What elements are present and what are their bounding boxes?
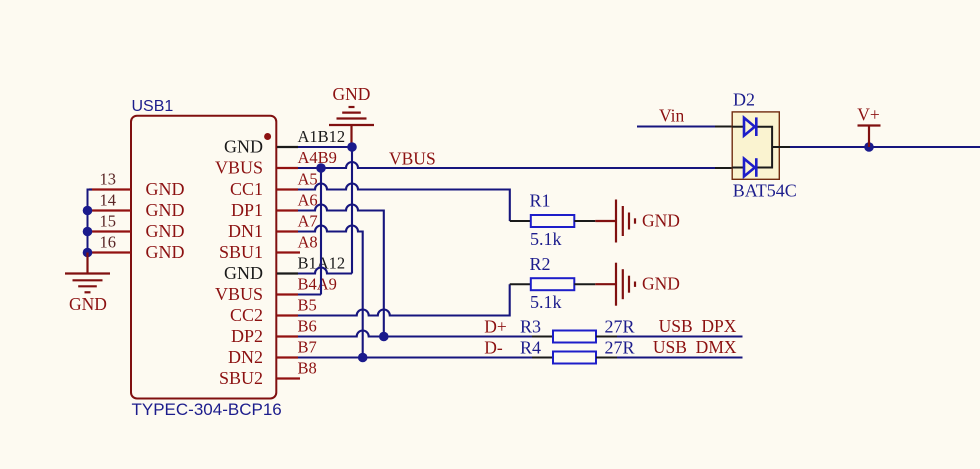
svg-text:R2: R2 xyxy=(530,254,551,274)
svg-text:B7: B7 xyxy=(298,338,317,357)
svg-text:GND: GND xyxy=(146,179,185,199)
svg-text:GND: GND xyxy=(69,294,107,314)
svg-text:15: 15 xyxy=(100,212,117,231)
svg-text:27R: 27R xyxy=(605,338,635,358)
svg-text:D+: D+ xyxy=(484,316,507,336)
svg-text:SBU1: SBU1 xyxy=(219,242,263,262)
svg-text:USB DMX: USB DMX xyxy=(653,337,737,357)
svg-text:DP1: DP1 xyxy=(231,200,263,220)
svg-text:USB DPX: USB DPX xyxy=(659,316,737,336)
svg-text:VBUS: VBUS xyxy=(389,149,436,169)
svg-text:D2: D2 xyxy=(733,90,755,110)
svg-text:B8: B8 xyxy=(298,359,317,378)
svg-text:A1B12: A1B12 xyxy=(298,127,346,146)
svg-text:D-: D- xyxy=(484,337,503,357)
svg-text:B6: B6 xyxy=(298,317,317,336)
svg-text:27R: 27R xyxy=(605,317,635,337)
svg-text:R4: R4 xyxy=(520,337,541,357)
svg-text:A7: A7 xyxy=(298,212,318,231)
svg-text:GND: GND xyxy=(146,221,185,241)
svg-text:GND: GND xyxy=(224,263,263,283)
svg-text:CC2: CC2 xyxy=(230,305,263,325)
svg-text:BAT54C: BAT54C xyxy=(733,180,797,200)
svg-text:Vin: Vin xyxy=(659,106,684,126)
svg-text:A8: A8 xyxy=(298,233,318,252)
svg-text:B5: B5 xyxy=(298,296,317,315)
svg-text:SBU2: SBU2 xyxy=(219,368,263,388)
svg-text:GND: GND xyxy=(642,274,680,294)
svg-text:GND: GND xyxy=(333,84,371,104)
svg-text:R1: R1 xyxy=(530,191,551,211)
svg-text:V+: V+ xyxy=(857,104,880,124)
svg-text:DN2: DN2 xyxy=(228,347,263,367)
svg-text:B4A9: B4A9 xyxy=(298,275,337,294)
svg-text:R3: R3 xyxy=(520,316,541,336)
svg-text:TYPEC-304-BCP16: TYPEC-304-BCP16 xyxy=(132,400,282,419)
svg-text:VBUS: VBUS xyxy=(215,158,263,178)
svg-text:DN1: DN1 xyxy=(228,221,263,241)
svg-text:14: 14 xyxy=(100,191,117,210)
svg-text:5.1k: 5.1k xyxy=(530,292,562,312)
svg-text:GND: GND xyxy=(146,242,185,262)
svg-text:A4B9: A4B9 xyxy=(298,148,337,167)
svg-text:GND: GND xyxy=(146,200,185,220)
svg-text:CC1: CC1 xyxy=(230,179,263,199)
svg-text:A5: A5 xyxy=(298,170,318,189)
svg-text:GND: GND xyxy=(224,137,263,157)
svg-text:A6: A6 xyxy=(298,191,318,210)
svg-text:USB1: USB1 xyxy=(132,98,174,115)
svg-text:16: 16 xyxy=(100,233,117,252)
svg-text:13: 13 xyxy=(100,170,117,189)
svg-text:DP2: DP2 xyxy=(231,326,263,346)
svg-text:5.1k: 5.1k xyxy=(530,229,562,249)
svg-text:VBUS: VBUS xyxy=(215,284,263,304)
svg-text:GND: GND xyxy=(642,211,680,231)
